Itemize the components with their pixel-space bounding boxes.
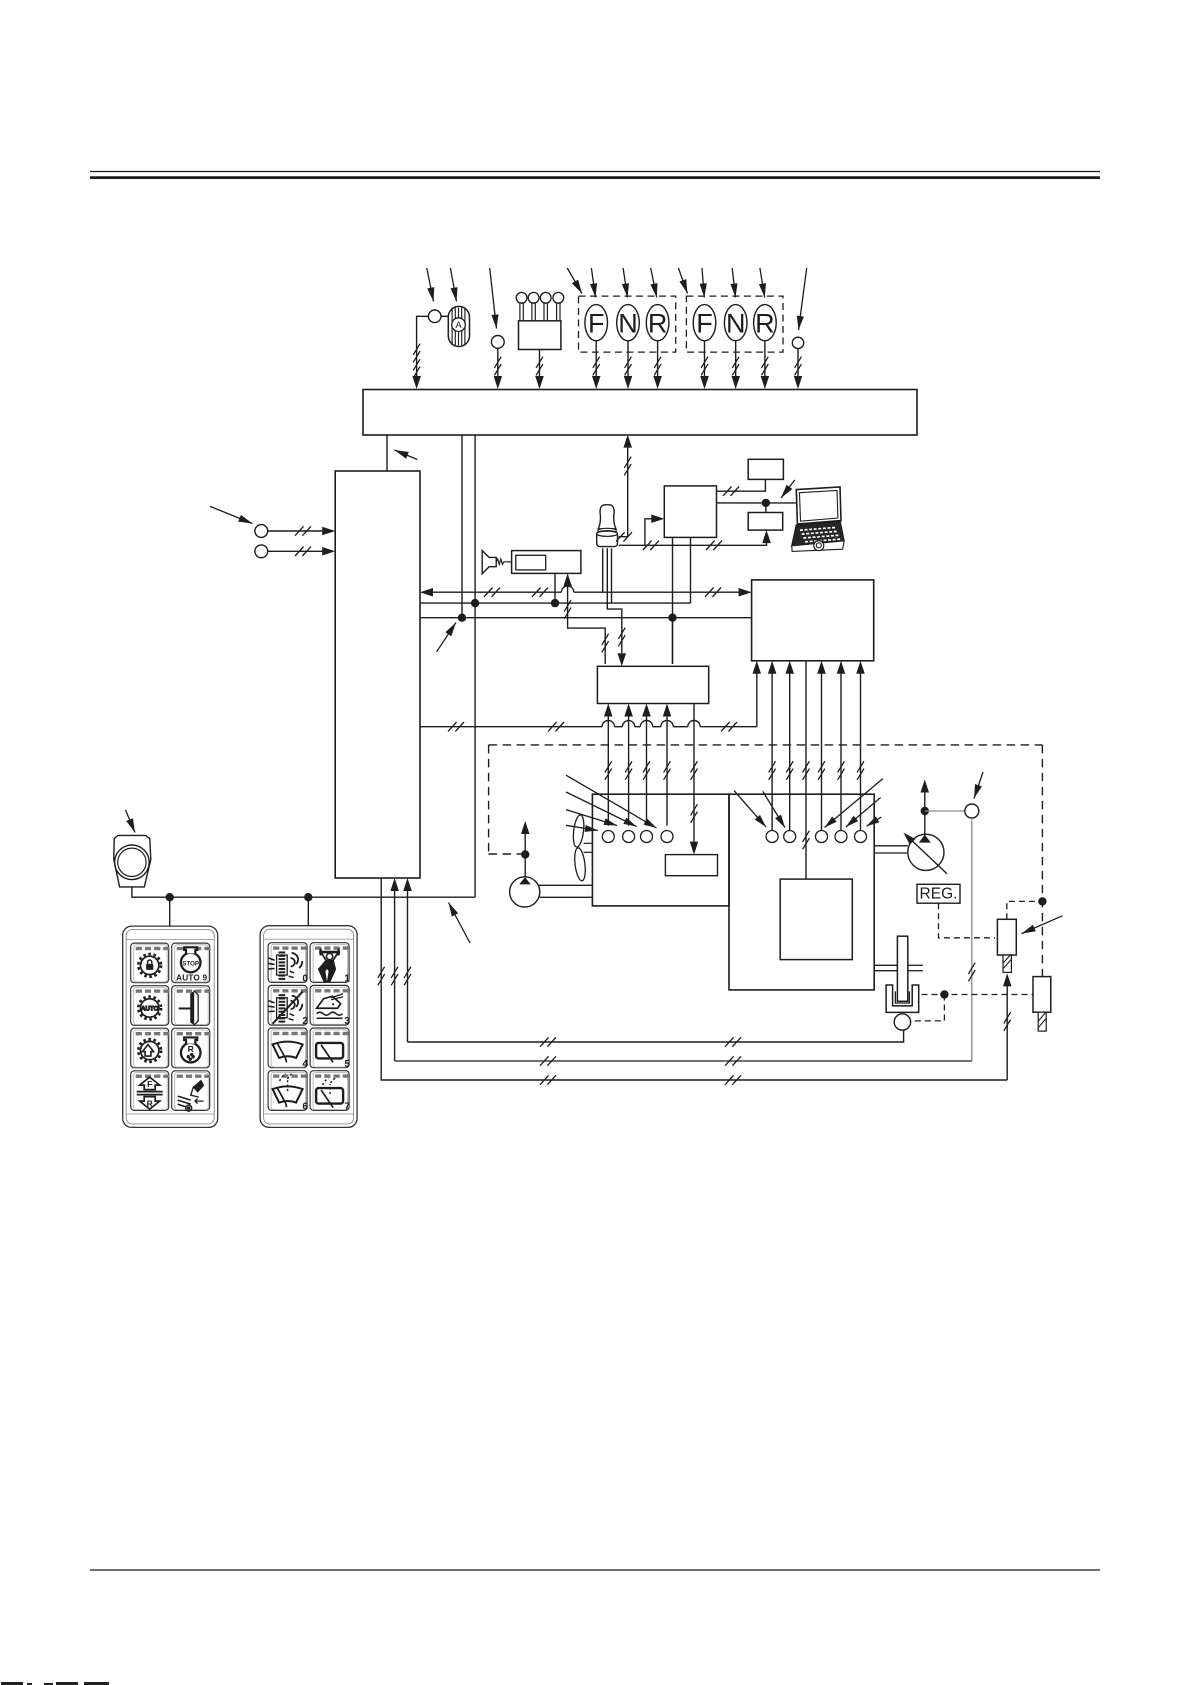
callout arrow to FNR2 N [732,268,735,298]
transmission wire solenoid [805,661,807,879]
transmission solenoid valve [997,919,1016,955]
svg-text:3: 3 [344,1016,350,1027]
variable displacement pump circle [908,834,944,870]
FNR1 oval F [585,305,608,341]
transmission wire 1 [771,664,773,832]
input circle L1 [255,525,268,538]
joystick collar [598,528,616,533]
callout arrow to FNR1 R [651,268,657,298]
wire dot to distributor [672,618,674,664]
machine ECU box [752,580,874,661]
injector stems [519,303,521,321]
arrow into controller [651,515,664,524]
sensor circle S1 (accel pedal) [428,310,441,323]
fan pump flow triangle [519,877,531,884]
svg-text:F: F [696,308,713,338]
laptop trackball [814,541,824,551]
callout arrow to FNR2 R [760,268,765,298]
line B to controller box [690,537,692,603]
engine terminal circles [602,831,614,843]
wire S1 to alternator [441,315,448,317]
svg-text:F: F [588,308,605,338]
engine callout arrow 3 [566,810,617,826]
svg-text:7: 7 [344,1102,350,1113]
rotary sensor lens outer [115,845,150,880]
callout arrow to input circles [210,506,253,523]
wire S2 to harness box [497,348,499,378]
callout arrow to laptop wire [781,480,795,498]
junction dot fan pilot [521,850,529,858]
wire joystick to armrest controller [619,519,661,546]
line C wire [420,617,752,619]
sensor circle S2 [491,336,504,349]
arrow into harness box [761,376,770,389]
engine wire 5 to injector driver [693,704,695,852]
wire controller down c1 [672,537,674,664]
keypad left button r4c1 [131,1071,169,1111]
pump variable arrow [907,836,948,874]
keypad left button r3c2 [172,1028,210,1068]
sensor target wheel bar [897,936,907,1001]
callout arrow to cab box wire [395,450,418,460]
wire FNR2 R to harness [764,341,766,378]
engine callout arrow 2 [566,792,637,827]
engine cooling fan [572,814,587,881]
transmission block box [729,794,874,990]
svg-text:R: R [755,308,775,338]
svg-text:R: R [648,308,668,338]
arrow into harness box [700,376,709,389]
fan pump pilot wire up [524,824,526,877]
laptop computer [792,487,845,551]
alarm inner box [516,555,546,570]
slash marks [494,357,501,368]
junction dot line C right [668,614,676,622]
engine wire 3 [646,706,648,826]
wire to keypad2 [307,897,309,926]
svg-text:5: 5 [344,1059,350,1070]
arrow up [521,821,530,834]
CAN bus cab to ECU [420,726,602,728]
keypad left button r4c2 [172,1071,210,1111]
callout arrow to FNR1 F [591,268,595,298]
svg-text:F: F [147,1079,152,1089]
arrow into harness box [794,376,802,389]
dashed pilot line top [489,744,1043,746]
FNR2 oval N [724,305,747,341]
wire FNR1 R to harness [657,341,659,378]
wire harness to cab box [386,435,388,471]
cab wire 1 down [381,878,1007,1080]
wire up into solenoid stem [1006,977,1008,1081]
junction dot sensor dashed [940,990,948,998]
engine callout arrow 4 [566,825,598,830]
wire alarm box down to line B [554,573,556,603]
pump flow triangle [919,835,931,843]
cab wire 2 with arrow [394,881,396,1061]
junction dot keypad1 [166,893,174,901]
speed sensor pickup circle [894,1014,910,1030]
wire dot to pressure port circle [925,810,965,812]
pressure port circle [965,804,979,818]
arrow into ECU bottom [753,661,762,674]
wire L1 into cab box [268,530,332,532]
engine injector driver box [665,855,717,876]
arrow into harness box [653,376,662,389]
transmission callout arrow 2 [763,791,785,827]
main harness connector box [363,390,917,436]
arrow into stem [1003,973,1012,986]
junction dot keypad2 [304,893,312,901]
line B wire [420,602,691,604]
FNR2 oval R [754,305,777,341]
transmission terminal circles [766,831,778,843]
arrow into harness box [412,376,421,389]
transmission wire 3 [821,664,823,832]
wire harness to line C junction [461,435,463,618]
wire L2 into cab box [268,550,332,552]
injector box [519,321,561,350]
dashed pilot line right down [1041,745,1043,977]
wire FNR1 F to harness [595,341,597,378]
transmission callout arrow 1 [734,791,766,827]
transmission wire 4 [840,664,842,832]
alternator stripes [451,308,453,346]
keypad left button r1c1 [131,943,169,983]
keypad left button r3c1 [131,1028,169,1068]
wire injector box to harness [539,350,541,379]
callout arrow to FNR1 N [623,268,627,298]
wire controller to laptop [717,502,797,504]
cab wire 3 with arrow [407,881,409,1042]
REG regulator label box [917,884,960,903]
transmission wire 2 [789,664,791,832]
arrow into harness box [592,376,601,389]
arrow into harness box bottom [624,435,633,448]
callout arrow to FNR2 box [678,268,687,294]
svg-text:REG.: REG. [920,886,958,903]
sensor circle S3 right [792,337,803,348]
junction dot pump pilot [921,807,929,815]
callout arrow to solenoid 2 [1022,916,1063,934]
cab harness tall box [335,471,420,878]
rotary sensor lens inner [118,848,146,876]
keypad right button r2c1 [268,985,307,1025]
speed solenoid valve 2 [1033,977,1051,1013]
page bottom rule [90,1569,1100,1571]
arrow into harness box [535,376,544,389]
harness slash marks [413,344,420,355]
engine wire 4 [666,706,668,826]
FNR1 oval R [646,305,669,341]
svg-text:4: 4 [302,1059,308,1070]
arrow into harness box [624,376,632,389]
junction dot line B alarm [551,599,559,607]
wire FNR2 N to harness [735,341,737,378]
arrow into harness box [732,376,741,389]
alarm speaker horn [482,551,496,574]
fan drive pump circle [510,877,540,907]
transmission callout arrow 5 [866,817,881,826]
wire S1 to harness box [417,316,429,376]
FNR2 oval F [693,305,716,341]
dashed pilot line left down [488,745,490,854]
arrow into harness box [494,376,503,389]
wire to keypad1 [169,897,171,926]
joystick wire down right [611,548,613,603]
svg-text:1: 1 [344,974,350,985]
alternator A circle [452,318,466,332]
wire harness to keypad bus [474,435,476,897]
engine wire 2 [628,706,630,826]
keypad right button r4c2 [310,1071,349,1111]
junction dot line C left [458,614,466,622]
keypad left button r2c1 [131,986,169,1026]
wire dot to service box [765,503,767,513]
rotary sensor body [114,835,151,887]
callout arrow to S2 [490,268,497,329]
keypad left shell [123,926,218,1127]
callout arrow to S1 [427,268,434,302]
transmission to pump shaft [874,845,908,847]
speed sensor yoke inner [895,991,909,1003]
svg-text:R: R [188,1044,194,1054]
wire controller to top small box [717,479,766,491]
wire sensor to keypad bus [132,887,475,897]
arrow into service connector box [762,530,771,543]
arrow into cab box [322,527,335,535]
engine block box [592,794,729,906]
svg-text:STOP: STOP [182,960,199,967]
callout arrow to alternator [450,268,456,302]
FNR switch group 1 dashed box [579,296,676,352]
FNR switch group 2 dashed box [686,296,783,352]
page top rule thick [90,176,1100,179]
wire joystick up to harness box [619,438,628,537]
keypad left button r2c2 [172,986,210,1026]
callout arrow to S3 [799,268,807,330]
page footer marks [1,1682,109,1685]
display small box [748,459,783,479]
arrow up [921,780,930,793]
arrow into engine inner box [690,842,698,855]
fan shaft [584,842,593,844]
cab wire 3 horizontal to sensor [408,1030,904,1042]
solenoid 2 stem hatched [1038,1012,1046,1031]
svg-text:N: N [726,308,746,338]
arrow into cab box [322,547,335,556]
REG dashed pilot line [939,903,996,938]
arrow into distributor [604,704,613,717]
speaker squiggle [496,559,511,564]
keypad right button r3c1 [268,1028,307,1068]
speed sensor yoke outer [886,985,919,1012]
transmission control box [780,879,852,960]
solenoid dashed pilot to main dashed [1007,901,1043,919]
wire FNR2 F to harness [704,341,706,378]
transmission wire 5 [860,664,862,832]
CAN line A bidirectional [420,588,433,597]
svg-text:2: 2 [302,1016,308,1027]
input circle L2 [255,545,268,558]
dashed pilot line to fan pump [489,853,521,855]
fan pump drive shaft [539,884,593,886]
slash marks [536,357,543,368]
output shaft to sensor [874,964,898,966]
callout arrow to FNR1 box [567,268,582,294]
pump pilot wire up [924,783,926,834]
keypad right button r4c1 [268,1071,307,1111]
keypad right button r1c2 [310,943,349,983]
svg-text:6: 6 [302,1102,308,1113]
alarm box [512,551,581,574]
transmission callout arrow 4 [846,798,881,827]
cab wire 2 horizontal [395,1060,972,1062]
wire FNR1 N to harness [627,341,629,378]
callout arrow to keypad bus [449,903,471,944]
keypad right shell [260,926,357,1128]
keypad right button r1c1 [268,943,307,983]
engine callout arrow 1 [566,775,657,828]
harness slash marks [413,359,420,370]
svg-text:N: N [618,308,638,338]
sensor dashed line right [922,994,1034,996]
keypad left button r1c2 [172,943,210,983]
svg-text:0: 0 [302,974,308,985]
FNR1 oval N [617,305,640,341]
svg-text:A: A [455,320,462,331]
armrest controller box [664,486,716,538]
alternator A capsule [448,306,469,346]
port circle wire down [971,818,973,1061]
joystick wire down left [602,548,604,592]
injector bank circles [516,292,527,303]
callout arrow to port circle [974,772,983,799]
svg-text:AUTO 9: AUTO 9 [176,973,207,982]
svg-text:R: R [147,1099,153,1109]
sensor dashed down [911,995,945,1021]
joystick base [597,534,618,547]
page top rule thin [90,171,1100,173]
callout arrow to rotary sensor [126,810,136,833]
wire joystick long to service box [645,534,767,546]
wire S3 to harness [797,349,799,378]
keypad right button r3c2 [310,1028,349,1068]
junction dot line B [471,599,479,607]
keypad right button r2c2 [310,985,349,1025]
service connector box [748,513,783,531]
junction dot laptop wire [762,499,770,507]
wire middle box to alarm [563,573,572,586]
junction dot on dashed [1038,897,1046,905]
solenoid stem hatched [1003,955,1011,972]
callout arrow to line C junction [437,623,456,652]
joystick knob [598,505,616,529]
engine wire 1 [607,706,609,826]
svg-text:AUTO: AUTO [141,1006,159,1013]
joystick wire down middle [607,548,622,653]
transmission callout arrow 3 [825,779,883,828]
distributor connector box [597,666,708,703]
callout arrow to FNR2 F [702,268,704,298]
arrow into distributor box [618,653,627,666]
